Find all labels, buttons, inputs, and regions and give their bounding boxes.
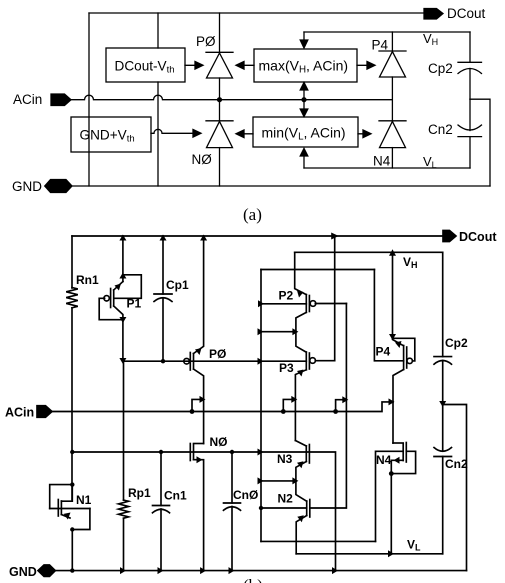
svg-text:Cp2: Cp2 — [428, 61, 453, 76]
wire: N2 gate to P2 gate column — [310, 304, 347, 509]
svg-text:P4: P4 — [376, 345, 391, 359]
wire: P3 drain jog to ACin — [283, 399, 295, 411]
block max(VH,ACin) — [254, 49, 357, 82]
node: Cp1 / rail junction arrow — [160, 235, 167, 241]
wire: gate column jog to ACin — [336, 400, 347, 412]
svg-text:N1: N1 — [76, 493, 92, 507]
node: column/P2 tap arrow — [258, 300, 264, 307]
wire: P0 drain jog to ACin — [192, 399, 204, 411]
svg-text:Cp1: Cp1 — [166, 278, 189, 292]
wire: top DCout rail (a) — [89, 12, 424, 14]
wire: N2 channel tap from bus column — [261, 507, 307, 509]
wire: bus to P4 channel tap — [374, 270, 403, 361]
svg-text:P3: P3 — [279, 361, 294, 375]
arrow: min to N0 — [236, 130, 253, 138]
diode P0 — [196, 13, 233, 100]
svg-text:Rp1: Rp1 — [128, 486, 151, 500]
node: jog dot on ACin (P0/N0) — [190, 409, 195, 414]
port ACin (b) — [5, 406, 52, 420]
svg-text:Cn2: Cn2 — [428, 122, 453, 137]
wire: left rail (a) — [88, 13, 90, 186]
wire: VL line (b) — [296, 553, 443, 555]
capacitor Cp2 (a) — [428, 32, 482, 99]
wire: link P2 drain to node column — [261, 331, 296, 333]
svg-text:(b): (b) — [243, 576, 263, 583]
node: link arrows N3 — [258, 477, 264, 484]
node: ACin-P0N0 junction — [217, 97, 222, 102]
svg-text:DCout: DCout — [447, 6, 486, 21]
block min(VL,ACin) — [253, 117, 358, 147]
node: P0 source / rail junction arrow — [200, 235, 207, 241]
svg-text:Rn1: Rn1 — [76, 273, 99, 287]
port GND (a) — [12, 179, 72, 194]
diode N0 — [192, 100, 234, 186]
wire: P3 gate up to rail — [334, 236, 336, 361]
transistor P2 — [279, 252, 347, 331]
arrow: DCout-Vth to P0 — [185, 62, 203, 70]
transistor P0 — [184, 236, 227, 444]
arrow: ACin node up into max box bottom — [300, 83, 308, 100]
node: jog dot on ACin (gate column) — [333, 409, 338, 414]
wire: gate-node bus horizontal top — [261, 269, 374, 271]
svg-text:VL: VL — [407, 538, 421, 553]
wire: P1 drain down to P0 gate line — [122, 320, 124, 362]
node: jog arrow on P0 drain — [200, 396, 206, 403]
wire: GND rail (b) — [55, 570, 467, 572]
wire: P1 column from rail — [122, 236, 124, 282]
node: Cp2 bottom junction arrow — [439, 401, 446, 407]
node: Cp1 / P0 gate line junction — [161, 359, 165, 363]
wire: cap midpoint link to outer GND wire — [443, 405, 467, 571]
diode N4 — [373, 121, 406, 169]
capacitor Cp1 — [154, 278, 189, 302]
arrow: VL up into min box bottom — [300, 149, 308, 169]
node: Cn1 top junction — [159, 450, 163, 454]
svg-text:VH: VH — [423, 31, 438, 47]
wire: Cp2/Cn2 midpoint to GND loop — [470, 99, 490, 186]
block DCout-Vth — [106, 48, 185, 82]
node: left rail / N1 drain junction — [70, 482, 74, 486]
svg-text:N4: N4 — [373, 154, 391, 169]
svg-text:DCout-Vth: DCout-Vth — [115, 59, 175, 76]
arrow: ACin node down into min box top — [300, 100, 308, 117]
svg-text:ACin: ACin — [13, 92, 42, 107]
wire: bus column bottom link — [261, 540, 376, 542]
node: N0-gate-line / GND junction arrow — [332, 567, 338, 574]
capacitor Cn2 (b) — [434, 405, 468, 554]
block GND+Vth — [71, 117, 151, 152]
svg-text:N3: N3 — [277, 452, 293, 466]
wire: left rail below Rn1 down to GND — [71, 308, 73, 500]
transistor P1 (diode-connected PMOS) — [99, 282, 141, 320]
wire: left rail above Rn1 — [71, 236, 73, 288]
transistor P4 (diode-connected PMOS) — [376, 252, 415, 443]
wire: vertical from DCout-Vth box down to GND rail — [157, 82, 159, 186]
wire: gate-node bus vertical column — [260, 270, 262, 542]
wire: P0 gate line (P1 drain to P3 channel) — [123, 360, 306, 362]
wire: P1 source-side loop — [114, 275, 141, 299]
svg-text:(a): (a) — [243, 205, 262, 224]
wire: N0 gate line from left rail to corner — [72, 452, 335, 571]
arrow: GND+Vth to N0 (hops over vertical) — [151, 129, 193, 133]
svg-text:PØ: PØ — [196, 34, 216, 49]
resistor Rn1 — [66, 273, 99, 308]
wire: vertical from rail to DCout-Vth box — [157, 13, 159, 48]
node: ACin-max/min junction — [301, 97, 306, 102]
node: VL / N4 source junction arrow — [388, 550, 394, 557]
arrow: min to N4 — [358, 130, 371, 138]
svg-text:max(VH, ACin): max(VH, ACin) — [259, 58, 349, 76]
capacitor Cn0 — [224, 452, 259, 571]
wire: P2 channel tap from node column — [261, 303, 306, 305]
node: column / P0-gate-line junction arrow — [258, 358, 264, 365]
arrow: max to P4 — [357, 62, 375, 70]
svg-text:P4: P4 — [372, 38, 389, 53]
node: jog arrow on gate column — [342, 396, 348, 403]
wire: VH line (b) — [295, 251, 443, 253]
resistor Rp1 — [119, 361, 151, 570]
node: P1 drain/gate junction — [119, 317, 126, 323]
wire: Cp1 bottom down to P0 gate line — [162, 298, 164, 361]
node: VH / P4 source junction arrow — [389, 249, 396, 256]
node: P1 drain / P0 gate line junction arrow — [119, 358, 126, 364]
svg-text:CnØ: CnØ — [233, 488, 258, 502]
wire: N4 channel tap riser — [376, 451, 404, 541]
wire: link N3 source to bus column — [261, 480, 296, 482]
svg-text:NØ: NØ — [210, 435, 228, 449]
node: P3-gate column / rail junction arrow — [331, 233, 339, 240]
arrow: VH into max box top — [300, 32, 308, 48]
svg-text:N4: N4 — [376, 453, 392, 467]
svg-text:Cp2: Cp2 — [445, 336, 468, 350]
node: link arrows — [258, 328, 264, 335]
transistor P3 — [279, 332, 335, 441]
port GND (b) — [9, 565, 55, 579]
port DCout (a) — [424, 6, 486, 21]
svg-text:NØ: NØ — [192, 152, 213, 167]
svg-text:GND+Vth: GND+Vth — [80, 128, 135, 145]
diode P4 — [372, 32, 407, 121]
node: jog dot on ACin (P3/N3) — [281, 409, 286, 414]
svg-text:N2: N2 — [278, 492, 294, 506]
port ACin (a) — [13, 92, 71, 107]
node: P1 source loop junction — [119, 273, 126, 279]
svg-text:Cn1: Cn1 — [164, 489, 187, 503]
node: jog arrow on P3 drain — [291, 396, 297, 403]
transistor N1 (diode-connected NMOS) — [50, 485, 92, 530]
svg-text:PØ: PØ — [209, 347, 226, 361]
capacitor Cn1 — [153, 452, 187, 571]
transistor N4 (diode-connected NMOS) — [376, 443, 416, 554]
transistor N2 — [278, 481, 310, 554]
wire: ACin line (b) — [52, 402, 393, 412]
capacitor Cp2 (b) — [434, 252, 468, 404]
wire: VL line (a) — [304, 167, 470, 169]
node: bus column / N0 gate line junction arrow — [258, 449, 264, 456]
svg-text:min(VL, ACin): min(VL, ACin) — [262, 125, 346, 143]
wire: Cp1 column from rail — [162, 236, 164, 294]
node: left rail / N0-gate-line junction — [70, 450, 74, 454]
node: ACin to P4 drain arrow — [389, 398, 395, 405]
svg-text:DCout: DCout — [459, 230, 497, 244]
svg-text:GND: GND — [12, 179, 42, 194]
capacitor Cn2 (a) — [428, 99, 482, 168]
port DCout (b) — [443, 230, 497, 244]
svg-text:P2: P2 — [279, 289, 294, 303]
wire: ACin line (a) with hops over verticals — [71, 95, 392, 100]
node: P1 column / rail junction arrow — [119, 235, 126, 241]
node: left rail / GND junction — [70, 568, 74, 572]
svg-text:GND: GND — [9, 565, 37, 579]
node: GND junction arrows — [120, 567, 126, 574]
svg-text:ACin: ACin — [5, 406, 34, 420]
node: bus column / N2 tap dot — [259, 506, 263, 510]
svg-text:Cn2: Cn2 — [445, 457, 468, 471]
arrow: max to P0 — [236, 62, 254, 70]
transistor N0 — [190, 435, 227, 571]
wire: GND rail (a) — [72, 185, 490, 187]
wire: VH line (a) — [304, 31, 470, 33]
node: left rail / N1 source junction — [70, 527, 74, 531]
wire: top DCout rail (b) — [72, 235, 443, 237]
transistor N3 — [277, 441, 309, 481]
svg-text:VH: VH — [403, 255, 418, 270]
node: Cn0 top junction — [230, 450, 234, 454]
node: N4 gate/source junction dot — [389, 471, 394, 476]
svg-text:P1: P1 — [127, 297, 142, 311]
